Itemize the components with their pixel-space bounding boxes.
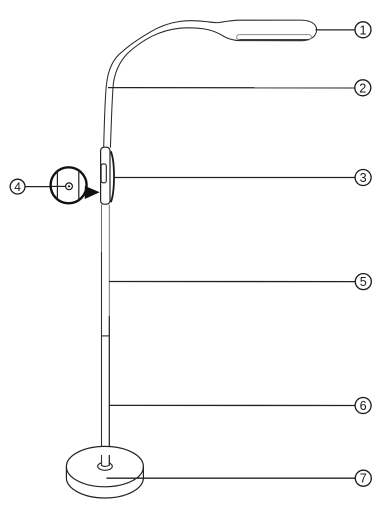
callout 2 bbox=[355, 80, 371, 96]
magnifier pointer triangle bbox=[85, 186, 100, 199]
magnifier detail circle bbox=[51, 167, 87, 203]
pole upper-left line bbox=[101, 205, 103, 252]
pole bottom arc in collar hole bbox=[101, 465, 109, 466]
callout 1 bbox=[355, 22, 371, 38]
svg-text:3: 3 bbox=[360, 171, 367, 185]
svg-text:4: 4 bbox=[14, 180, 21, 194]
leader line 1 bbox=[316, 29, 356, 31]
lamp base bottom rim bbox=[66, 467, 143, 498]
callout 5 bbox=[355, 274, 371, 290]
magnified button bbox=[66, 183, 73, 190]
lamp diffuser pill inside head, light top edge bbox=[237, 35, 312, 40]
svg-text:6: 6 bbox=[360, 399, 367, 413]
callout 3 bbox=[355, 170, 371, 186]
pole end into collar bbox=[102, 455, 110, 466]
pole joint bbox=[102, 335, 110, 337]
callout 7 bbox=[355, 470, 371, 486]
svg-text:5: 5 bbox=[360, 275, 367, 289]
leader line 2 bbox=[108, 87, 355, 89]
pole collar on base: outer ring bbox=[98, 462, 113, 470]
leader line 6 bbox=[109, 404, 355, 406]
lamp diffuser pill dark bottom edge bbox=[239, 39, 309, 41]
svg-text:2: 2 bbox=[359, 81, 366, 95]
control housing on pole bbox=[101, 147, 114, 204]
power button on housing bbox=[101, 164, 106, 183]
callout 4 bbox=[10, 179, 25, 194]
leader line 4 bbox=[25, 186, 66, 188]
leader line 7 bbox=[106, 477, 355, 479]
lamp head and gooseneck outline bbox=[104, 20, 317, 148]
leader line 3 bbox=[114, 177, 355, 179]
svg-text:7: 7 bbox=[360, 472, 367, 486]
callout 6 bbox=[355, 398, 371, 414]
lamp base top face bbox=[66, 446, 143, 486]
leader line 5 bbox=[109, 281, 355, 283]
pole upper-right line bbox=[108, 205, 110, 316]
pole lower-right line bbox=[108, 316, 110, 466]
pole lower-left line bbox=[101, 252, 103, 466]
svg-text:1: 1 bbox=[359, 23, 366, 37]
